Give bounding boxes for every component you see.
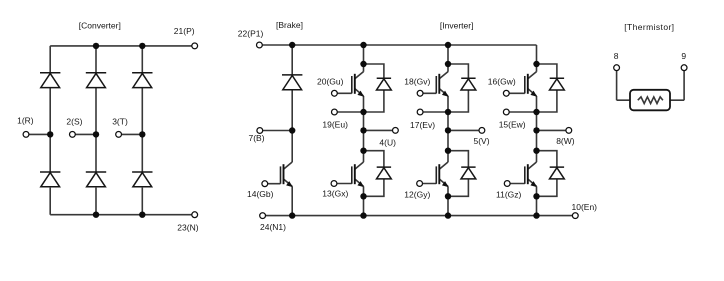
svg-text:11(Gz): 11(Gz) bbox=[496, 189, 522, 199]
svg-text:15(Ew): 15(Ew) bbox=[499, 120, 526, 130]
svg-text:12(Gy): 12(Gy) bbox=[404, 189, 430, 199]
svg-text:24(N1): 24(N1) bbox=[260, 222, 286, 232]
svg-text:9: 9 bbox=[681, 51, 686, 61]
svg-text:2(S): 2(S) bbox=[66, 117, 82, 127]
svg-text:10(En): 10(En) bbox=[572, 202, 598, 212]
svg-text:3(T): 3(T) bbox=[112, 117, 128, 127]
svg-text:7(B): 7(B) bbox=[249, 133, 265, 143]
svg-text:5(V): 5(V) bbox=[474, 136, 490, 146]
svg-text:14(Gb): 14(Gb) bbox=[247, 189, 274, 199]
svg-text:18(Gv): 18(Gv) bbox=[404, 77, 430, 87]
svg-text:[Inverter]: [Inverter] bbox=[440, 20, 474, 30]
svg-text:8: 8 bbox=[614, 51, 619, 61]
svg-text:16(Gw): 16(Gw) bbox=[488, 77, 516, 87]
svg-text:[Thermistor]: [Thermistor] bbox=[624, 22, 674, 32]
svg-text:23(N): 23(N) bbox=[177, 222, 198, 232]
svg-text:1(R): 1(R) bbox=[17, 115, 34, 125]
svg-text:[Brake]: [Brake] bbox=[276, 20, 303, 30]
svg-text:[Converter]: [Converter] bbox=[79, 20, 121, 30]
svg-text:22(P1): 22(P1) bbox=[238, 29, 264, 39]
svg-text:19(Eu): 19(Eu) bbox=[322, 119, 348, 129]
svg-text:13(Gx): 13(Gx) bbox=[322, 188, 348, 198]
svg-text:8(W): 8(W) bbox=[556, 136, 575, 146]
svg-text:17(Ev): 17(Ev) bbox=[410, 120, 435, 130]
svg-text:20(Gu): 20(Gu) bbox=[317, 77, 344, 87]
svg-text:21(P): 21(P) bbox=[174, 26, 195, 36]
svg-text:4(U): 4(U) bbox=[379, 138, 396, 148]
